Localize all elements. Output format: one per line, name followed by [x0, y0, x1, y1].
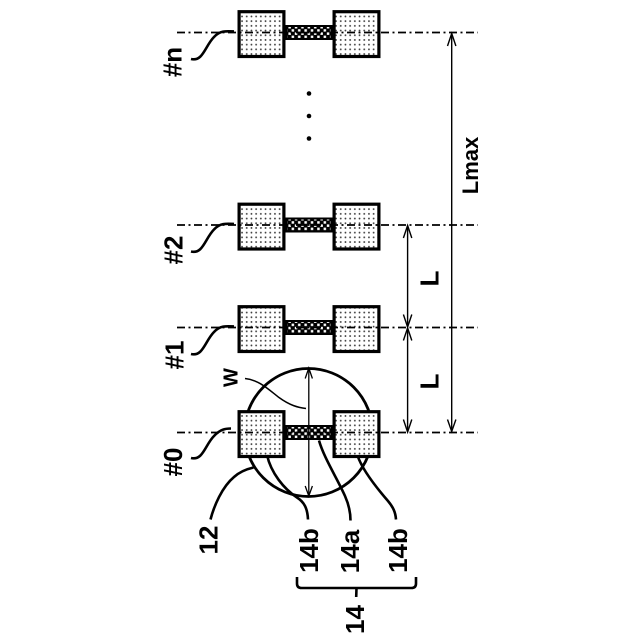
svg-text:14b: 14b — [383, 528, 413, 573]
leader of label W — [245, 379, 306, 409]
leader of label #1 — [191, 326, 234, 354]
svg-text:14b: 14b — [294, 528, 324, 573]
leader of label 14b left to left pad — [267, 455, 308, 520]
svg-text:#0: #0 — [158, 448, 188, 477]
bracket stem — [355, 588, 358, 597]
svg-text:12: 12 — [194, 526, 224, 555]
element #1 right pad 14b — [334, 307, 379, 352]
element #n bridge 14a — [287, 26, 332, 39]
svg-text:L: L — [415, 373, 445, 389]
svg-text:14a: 14a — [335, 529, 365, 573]
centerline of element #n — [177, 32, 478, 34]
element #0 bridge 14a — [287, 426, 332, 439]
ellipsis dots between #n and #2 — [307, 91, 312, 141]
svg-text:14: 14 — [340, 605, 370, 634]
centerline of element #2 — [177, 224, 478, 226]
leader of label #0 — [191, 429, 231, 459]
svg-text:#1: #1 — [160, 341, 190, 370]
leader of label #n — [191, 31, 234, 59]
leader of label 12 to circle — [211, 468, 254, 520]
dimension Lmax between #n and #0 — [448, 34, 456, 432]
centerline of element #1 — [177, 327, 478, 329]
dimension L between #1 and #0 — [403, 328, 411, 432]
element #n right pad 14b — [334, 12, 379, 57]
svg-text:Lmax: Lmax — [458, 136, 483, 194]
element #0 right pad 14b — [334, 412, 379, 457]
element #n left pad 14b — [239, 12, 284, 57]
leader of label 14b right to right pad — [358, 456, 397, 520]
width dimension W arrow — [305, 368, 312, 496]
centerline of element #0 — [177, 432, 478, 434]
element #2 right pad 14b — [334, 204, 379, 249]
svg-text:L: L — [415, 270, 445, 286]
svg-text:W: W — [221, 368, 243, 387]
element #2 bridge 14a — [287, 219, 332, 232]
bracket grouping 14b,14a,14b as 14 — [297, 577, 416, 588]
element #1 bridge 14a — [287, 321, 332, 334]
element #0 left pad 14b — [239, 412, 284, 457]
dimension L between #2 and #1 — [403, 226, 411, 328]
leader of label #2 — [191, 224, 234, 252]
svg-text:#n: #n — [158, 47, 188, 77]
detail circle around element #0 — [245, 369, 373, 497]
leader of label 14a to bridge — [319, 441, 351, 521]
element #1 left pad 14b — [239, 307, 284, 352]
element #2 left pad 14b — [239, 204, 284, 249]
svg-text:#2: #2 — [159, 236, 189, 265]
